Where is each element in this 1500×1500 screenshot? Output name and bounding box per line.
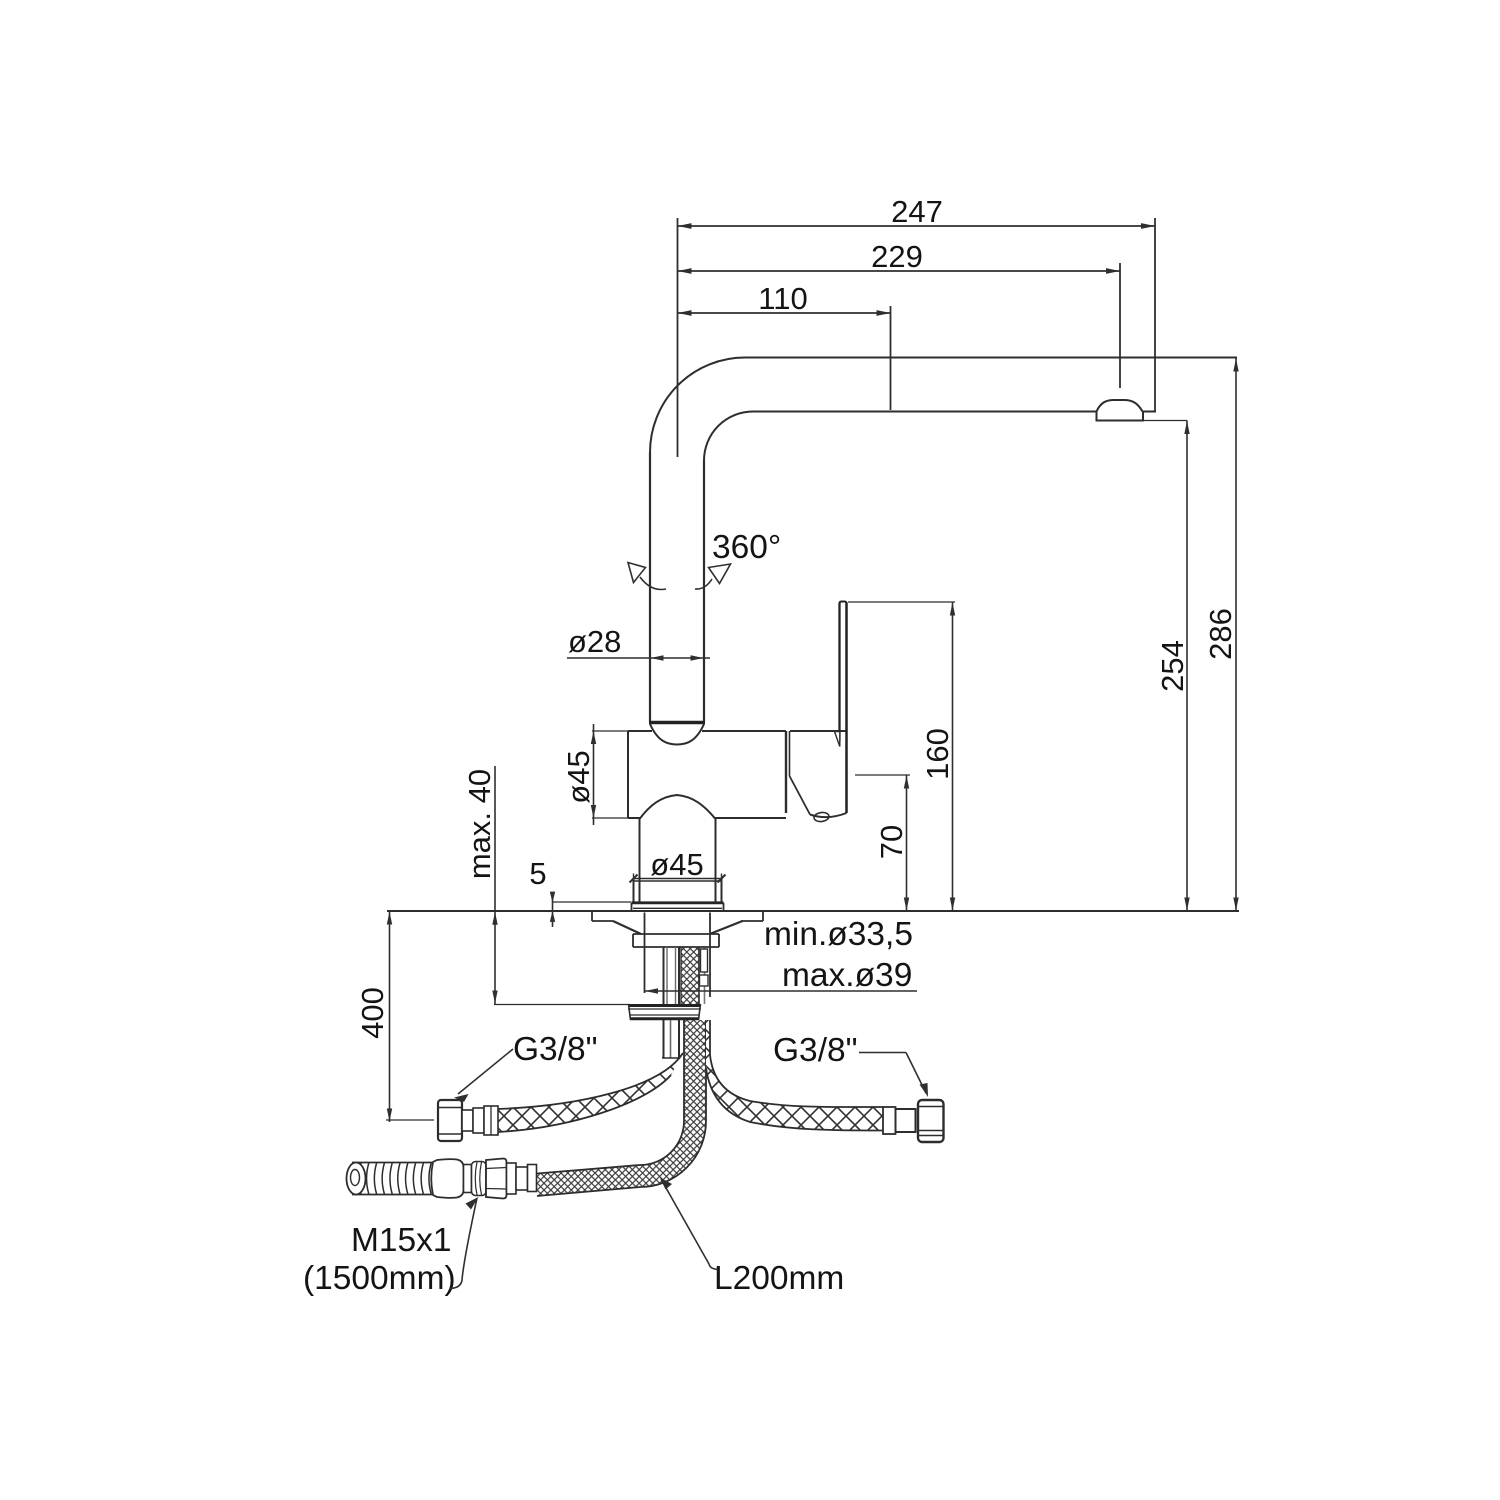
riser pipe left wall (649, 453, 651, 723)
label M15x1 + (1500mm) + leader (303, 1197, 479, 1297)
under-counter washer plate (592, 911, 763, 934)
right G3/8 connector (883, 1100, 944, 1142)
left G3/8 connector (438, 1100, 498, 1141)
extension line 229 right (1119, 263, 1121, 388)
svg-text:229: 229 (871, 239, 923, 274)
svg-text:110: 110 (758, 281, 807, 316)
svg-text:M15x1: M15x1 (351, 1222, 452, 1259)
extension line 110 right (890, 306, 892, 410)
hose bundle above nut (681, 947, 708, 1005)
label G3/8 right + leader (773, 1032, 928, 1097)
spray hose coupling pieces (431, 1159, 536, 1199)
riser pipe right wall (703, 461, 705, 723)
dimension 110 (678, 281, 891, 316)
shank below nut (662, 1020, 680, 1058)
swivel collar arc (650, 724, 704, 745)
svg-text:160: 160 (920, 728, 955, 780)
dimension max40 (rotated) (462, 766, 630, 1005)
spout bottom line (753, 411, 1097, 413)
label G3/8 left + leader (454, 1031, 598, 1102)
dimension 286 (rotated) (1203, 358, 1239, 911)
base ring (634, 879, 722, 904)
riser pipe bottom edge (649, 721, 705, 724)
svg-text:ø45: ø45 (561, 750, 596, 803)
svg-text:360°: 360° (712, 529, 781, 566)
svg-text:L200mm: L200mm (714, 1260, 844, 1297)
dimension 254 (rotated) (1144, 421, 1190, 912)
right supply hose (706, 1020, 883, 1131)
svg-text:(1500mm): (1500mm) (303, 1260, 456, 1297)
svg-text:max. 40: max. 40 (462, 769, 497, 879)
svg-text:5: 5 (529, 856, 546, 891)
svg-text:max.ø39: max.ø39 (782, 957, 912, 994)
pull-out spray head (1097, 400, 1157, 421)
svg-text:254: 254 (1155, 640, 1190, 692)
rotation arrow left (628, 563, 666, 590)
svg-text:ø45: ø45 (650, 847, 703, 882)
mounting nut (628, 1004, 701, 1020)
dimension 160 (rotated) (848, 602, 955, 911)
body/neck saddle arch (640, 795, 716, 819)
svg-text:247: 247 (891, 194, 943, 229)
svg-text:min.ø33,5: min.ø33,5 (764, 916, 913, 953)
svg-text:400: 400 (355, 987, 390, 1039)
dimension 5 (529, 856, 631, 927)
mounting hole lines (min 33.5) (644, 913, 646, 994)
dimension 229 (678, 239, 1121, 274)
clamp bracket (633, 934, 719, 947)
handle lever (835, 602, 847, 814)
dimension o45 base (630, 847, 726, 884)
dimension 400 (rotated) (355, 911, 434, 1122)
rotation arrow right (695, 564, 731, 589)
label L200mm + leader (660, 1178, 844, 1298)
spout top line (745, 357, 1237, 359)
spout outer bend (650, 358, 745, 453)
spray hose (central, curving left) (537, 1020, 710, 1196)
dimension 247 (678, 194, 1156, 229)
countertop line (387, 910, 1239, 912)
corrugated spray hose end (347, 1163, 434, 1195)
svg-text:G3/8": G3/8" (513, 1031, 598, 1068)
escutcheon plate (632, 903, 724, 911)
extension line 247 right / spout tip face (1154, 218, 1156, 412)
dimension 70 (rotated) (855, 775, 910, 911)
mixer body outline (628, 731, 790, 818)
dimension o45 body (rotated) (561, 724, 650, 825)
neck below body (640, 818, 716, 902)
dimension max o39 (645, 957, 917, 994)
svg-text:286: 286 (1203, 608, 1238, 660)
dimension o28 (567, 624, 710, 661)
svg-text:70: 70 (874, 825, 909, 859)
threaded shank above nut (664, 947, 680, 1005)
handle base cap (790, 731, 847, 822)
svg-text:ø28: ø28 (568, 624, 621, 659)
svg-text:G3/8": G3/8" (773, 1032, 858, 1069)
extension line left (spout start) (677, 218, 679, 457)
spout inner bend (704, 412, 753, 461)
left supply hose (498, 1053, 683, 1132)
